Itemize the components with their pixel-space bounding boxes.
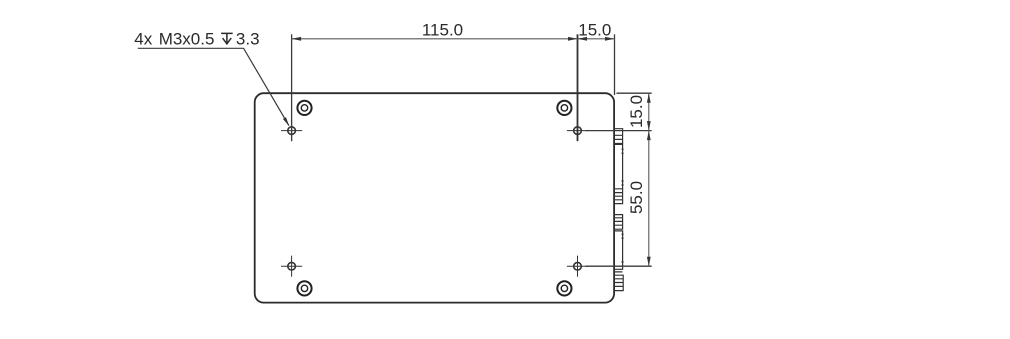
- leader line: [138, 48, 289, 125]
- svg-text:15.0: 15.0: [627, 95, 646, 128]
- side connector body B: [615, 144, 624, 188]
- dimension line 15.0 / 55.0 (vertical, x=648.8): [648, 93, 650, 266]
- enclosure outline: [255, 93, 614, 302]
- extension line left hole (x=291.6): [291, 34, 293, 141]
- mounting hole top-right: [567, 120, 588, 141]
- arrowheads at y=130.6: [647, 121, 651, 131]
- screw head bottom-left: [297, 281, 311, 295]
- extension line top-right hole (y=130.6): [586, 130, 652, 132]
- arrowheads at x=577.5: [568, 37, 578, 41]
- mounting hole bottom-left: [281, 256, 302, 277]
- svg-text:115.0: 115.0: [422, 20, 463, 39]
- arrowhead right of 15.0: [605, 37, 615, 41]
- arrowhead down at y=266.2: [647, 257, 651, 267]
- side connector bump C: [615, 189, 623, 204]
- screw head top-left: [297, 101, 311, 115]
- dimension line 115.0 / 15.0 (horizontal, y=38.8): [292, 38, 615, 40]
- screw head top-right: [557, 101, 571, 115]
- extension line top edge (y=93.2): [617, 92, 652, 94]
- screw head bottom-right: [557, 281, 571, 295]
- side connector body E: [615, 231, 624, 269]
- svg-text:15.0: 15.0: [578, 20, 611, 39]
- svg-text:55.0: 55.0: [627, 181, 646, 214]
- mounting hole top-left: [281, 120, 302, 141]
- extension line case right edge (x=614.5): [614, 34, 616, 95]
- svg-text:M3x0.5: M3x0.5: [159, 29, 215, 48]
- arrowhead left of 115.0: [292, 37, 302, 41]
- arrowhead up at y=93.2: [647, 93, 651, 103]
- mounting hole bottom-right: [567, 256, 588, 277]
- depth symbol: [221, 33, 233, 44]
- svg-text:4x: 4x: [134, 29, 152, 48]
- side connector bump F (bottom terminal block): [615, 272, 624, 291]
- extension line bottom-right hole (y=266.2): [586, 265, 652, 267]
- leader arrowhead: [283, 117, 289, 126]
- side connector bump A (top terminal block): [615, 129, 623, 144]
- extension line right hole (x=577.5): [577, 34, 579, 141]
- side connector bump D: [615, 215, 623, 230]
- svg-text:3.3: 3.3: [236, 29, 260, 48]
